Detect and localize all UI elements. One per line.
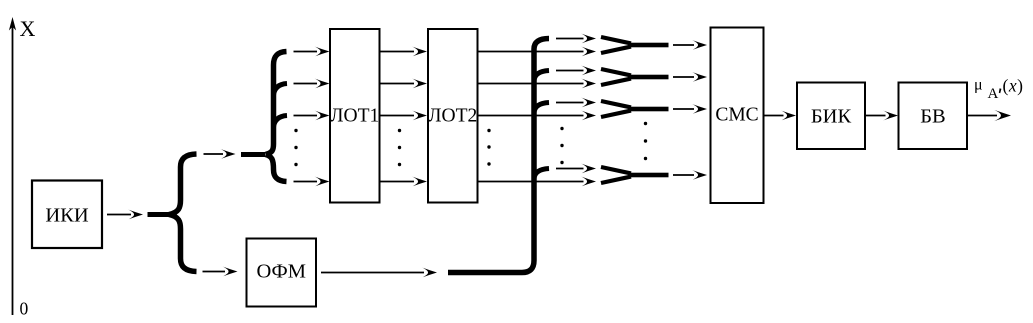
box БИК (797, 83, 865, 150)
box ИКИ (32, 181, 102, 249)
svg-text:ИКИ: ИКИ (45, 205, 88, 227)
thick stub into splitter 1 (148, 212, 173, 217)
dots column left of ЛОТ1 (294, 129, 297, 166)
box ОФМ (247, 239, 317, 307)
wires fan to ЛОТ1 (rows 1-4) (294, 51, 318, 53)
wire СМС to БИК (764, 115, 784, 117)
svg-text:БИК: БИК (811, 106, 852, 128)
splitter2 hook row3 (274, 116, 288, 128)
axis X line (12, 23, 14, 315)
svg-text:μ: μ (974, 77, 983, 94)
dots column right of ЛОТ2 (487, 129, 490, 166)
thick stub into splitter 2 (241, 152, 265, 157)
wires ЛОТ1 to ЛОТ2 (rows 1-4) (381, 51, 415, 53)
box СМС (711, 28, 764, 204)
mixer funnel row1 (601, 37, 669, 53)
mixer funnel row3 (601, 101, 669, 117)
output label mu A'(x) (974, 76, 1023, 103)
svg-text:0: 0 (20, 299, 29, 319)
carrier hook row2 (534, 71, 549, 81)
svg-text:X: X (20, 16, 36, 41)
box ЛОТ1 (330, 29, 380, 203)
dots column right of carrier trunk (560, 127, 563, 164)
svg-text:СМС: СМС (715, 105, 758, 126)
axis X arrowhead (9, 17, 16, 31)
wire ОФМ to carrier trunk (321, 272, 424, 274)
carrier wires to mixers (rows 1-4, upper lines) (556, 38, 584, 40)
svg-text:A: A (988, 86, 999, 102)
wire splitter1 upper to splitter2 (204, 153, 224, 155)
svg-text:ЛОТ1: ЛОТ1 (330, 106, 379, 127)
wires mixers to СМС (rows 1-4) (673, 44, 694, 46)
wire ИКИ to splitter (107, 214, 131, 216)
wires ЛОТ2 to mixers (rows 1-4, lower lines) (478, 51, 584, 53)
mixer funnel row2 (601, 69, 669, 85)
box БВ (899, 83, 968, 150)
brace splitter 1 (169, 154, 197, 215)
brace splitter 2 (fan-out) (266, 52, 287, 155)
carrier hook row4 (534, 169, 549, 179)
svg-text:ОФМ: ОФМ (256, 261, 305, 283)
svg-text:(x): (x) (1003, 76, 1024, 96)
svg-text:ЛОТ2: ЛОТ2 (428, 106, 477, 127)
dots column between funnels (644, 122, 647, 160)
wire ОФМ carrier trunk (thick L with top hook) (448, 39, 549, 273)
wire БИК to БВ (865, 115, 886, 117)
box ЛОТ2 (428, 29, 478, 203)
carrier hook row3 (534, 103, 549, 113)
wire splitter1 lower to ОФМ (203, 271, 226, 273)
output wire from БВ (967, 115, 997, 117)
splitter2 hook row2 (274, 84, 288, 96)
svg-text:БВ: БВ (920, 106, 945, 128)
mixer funnel row4 (601, 167, 669, 183)
dots column between ЛОТ1 and ЛОТ2 (398, 129, 401, 166)
